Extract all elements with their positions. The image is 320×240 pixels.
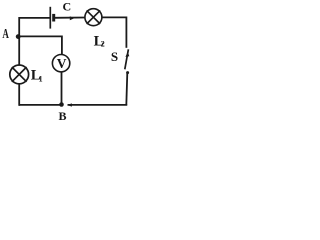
wire: branch from node A rightwards [19, 35, 62, 37]
current arrow on top wire [70, 16, 75, 20]
label S [111, 49, 118, 64]
label A [2, 27, 9, 42]
label L1 [31, 68, 43, 84]
wire: right side down to switch gap [125, 17, 127, 48]
wire: lamp L2 to top-right corner [102, 16, 126, 18]
svg-text:B: B [59, 109, 67, 122]
svg-text:V: V [57, 56, 67, 71]
lamp L2: cross X [87, 10, 101, 24]
svg-text:C: C [63, 0, 72, 13]
wire: switch lower terminal down to bottom-right corner [126, 73, 127, 106]
wire: left side, bottom corner up to lamp L1 [18, 83, 20, 105]
voltmeter V: meter circle [52, 55, 69, 72]
battery cell: long thin plate [49, 7, 51, 29]
current arrow on bottom wire [67, 103, 72, 106]
switch S: lower terminal dot [126, 71, 129, 74]
switch S: blade [125, 49, 129, 69]
wire: bottom side, node B to bottom-left corner [19, 104, 61, 106]
label C [63, 0, 72, 13]
lamp L1: cross X [12, 67, 27, 82]
wire: bottom side, right corner to node B [68, 104, 128, 106]
node A junction dot [16, 34, 21, 39]
wire: battery to lamp L2 [55, 17, 85, 19]
wire: left side, node A up to top-left corner [18, 17, 20, 36]
label B [59, 109, 67, 123]
wire: voltmeter down to node B [61, 72, 63, 105]
switch S: arrowhead on blade [125, 52, 129, 57]
svg-text:A: A [2, 27, 9, 42]
label L2 [94, 34, 105, 50]
svg-text:2: 2 [101, 40, 105, 49]
node B junction dot [59, 102, 64, 107]
svg-text:1: 1 [39, 75, 43, 84]
wire: left side, lamp L1 up to node A [18, 36, 20, 66]
voltmeter V: letter V [57, 56, 67, 71]
wire: top side, left corner to battery [19, 17, 50, 19]
lamp L1: bulb circle [10, 65, 29, 84]
battery cell: short thick plate [52, 14, 55, 22]
wire: branch corner down to voltmeter [61, 36, 63, 55]
lamp L2: bulb circle [85, 9, 102, 26]
svg-text:S: S [111, 49, 118, 64]
